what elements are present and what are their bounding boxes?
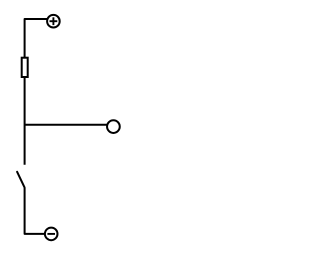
- wire from junction to output terminal: [25, 124, 107, 126]
- terminal negative (circle with minus): [45, 228, 58, 241]
- wire from positive terminal down to resistor: [25, 19, 47, 58]
- output terminal (open circle): [107, 120, 120, 133]
- wire from resistor through junction to switch: [24, 77, 26, 165]
- switch blade: [17, 172, 25, 188]
- wire from switch to negative terminal: [25, 188, 45, 234]
- terminal positive (circle with plus): [47, 15, 60, 28]
- resistor (box): [22, 58, 28, 77]
